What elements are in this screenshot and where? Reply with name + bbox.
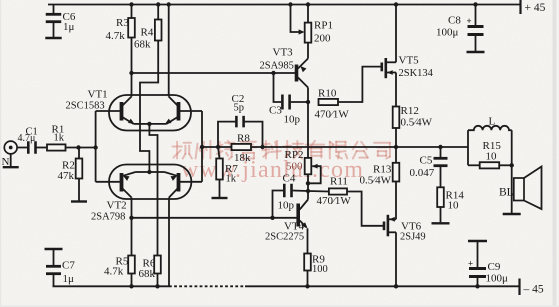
svg-text:10: 10 <box>486 151 498 163</box>
svg-text:100μ: 100μ <box>436 27 459 39</box>
capacitor C8 (polarized) <box>473 2 477 6</box>
wire (VT1 collector to VT3 base) <box>132 72 296 74</box>
wire (VT3 collector node) <box>307 88 309 103</box>
svg-text:R3: R3 <box>116 17 129 29</box>
svg-text:1k: 1k <box>54 133 65 144</box>
node (VT2 emitters junction) <box>147 170 151 174</box>
transistor VT3 (2SA985) <box>295 65 299 82</box>
resistor R2 <box>78 148 80 159</box>
resistor R14 <box>437 187 444 207</box>
node (VT3 collector / R10 / C3) <box>306 100 310 104</box>
svg-text:VT3: VT3 <box>273 47 294 59</box>
resistor R1 <box>47 144 66 150</box>
wire (C1 to R1) <box>36 147 47 149</box>
capacitor C9 (polarized) <box>468 240 487 242</box>
wire (to VT2 left base) <box>96 181 120 183</box>
svg-text:– 45: – 45 <box>523 284 544 296</box>
capacitor C4 <box>273 191 284 219</box>
svg-text:1k: 1k <box>226 174 237 185</box>
svg-text:RP1: RP1 <box>314 20 333 32</box>
svg-text:0.5⁄4W: 0.5⁄4W <box>360 175 392 187</box>
resistor R6 <box>154 256 161 274</box>
resistor R5 <box>131 198 133 256</box>
svg-text:C4: C4 <box>283 173 296 185</box>
svg-text:100: 100 <box>312 264 328 275</box>
ground stub at input <box>3 166 19 168</box>
op-amp VT2 outline (dual transistor 2SA798) <box>109 165 191 200</box>
svg-text:5p: 5p <box>234 103 245 114</box>
wire (input connector to ground stub) <box>10 154 12 167</box>
svg-text:10: 10 <box>448 200 460 212</box>
speaker BL <box>514 178 524 201</box>
svg-text:68k: 68k <box>134 39 151 51</box>
svg-text:4.7k: 4.7k <box>104 266 124 278</box>
resistor R7 <box>218 147 220 159</box>
transistor VT2 left half <box>120 173 124 192</box>
svg-text:0.047: 0.047 <box>410 167 435 179</box>
node (R3 bottom / VT1 left collector) <box>129 71 133 75</box>
svg-text:470⁄1W: 470⁄1W <box>317 195 352 207</box>
-45 terminal <box>518 279 520 296</box>
transistor VT1 left half <box>120 102 124 121</box>
capacitor C7 <box>45 248 63 250</box>
svg-text:4.7k: 4.7k <box>106 30 126 42</box>
svg-text:C9: C9 <box>488 261 501 273</box>
resistor R4 <box>156 2 160 6</box>
wire (VT6 to R13) <box>395 182 397 220</box>
svg-text:C8: C8 <box>448 15 461 27</box>
watermark company name (decorative) <box>173 141 390 160</box>
wire (VT1 right collector to +45 rail) <box>167 2 171 6</box>
svg-text:2SA985: 2SA985 <box>260 61 294 72</box>
transistor VT5 (2SK134 MOSFET) <box>380 63 383 72</box>
resistor R13 <box>393 163 400 182</box>
transistor VT2 right half <box>177 173 181 192</box>
potentiometer RP2 <box>305 158 312 174</box>
terminal stub below C8 <box>467 51 485 53</box>
svg-text:2SA798: 2SA798 <box>91 212 125 223</box>
svg-text:R4: R4 <box>141 27 154 39</box>
resistor R12 <box>393 107 400 129</box>
wire (VT5 source to R12) <box>395 73 397 107</box>
resistor R8 <box>232 144 252 150</box>
svg-text:R10: R10 <box>318 88 337 100</box>
wire (VT2 right base lead) <box>179 181 203 183</box>
resistor R15 <box>468 164 480 166</box>
node (VT1 emitters junction) <box>147 122 151 126</box>
+45 terminal <box>519 0 521 14</box>
svg-text:VT5: VT5 <box>399 55 420 67</box>
svg-text:470⁄1W: 470⁄1W <box>315 109 350 121</box>
node (R1/R2/base junction) <box>76 145 80 149</box>
wire (R8 to output line) <box>251 146 396 148</box>
wire (VT1/VT2 right bases vertical) <box>201 111 203 182</box>
svg-text:0.5⁄4W: 0.5⁄4W <box>401 117 433 129</box>
wire (RP2 bottom to R11 node) <box>307 183 309 191</box>
ground stub below R14 <box>432 222 450 224</box>
op-amp VT1 outline (dual transistor 2SC1583) <box>109 95 191 131</box>
wire (VT1 emitters tail to R6) <box>149 124 157 256</box>
-45V rail <box>53 285 170 287</box>
wire (feedback node to R8) <box>202 146 232 148</box>
wire (to speaker) <box>511 165 513 213</box>
svg-text:2SC2275: 2SC2275 <box>265 232 304 243</box>
svg-text:+ 45: + 45 <box>525 2 546 14</box>
+45V rail <box>48 4 521 6</box>
svg-text:+: + <box>468 259 473 269</box>
inductor L <box>467 130 469 165</box>
wire (dashed section of -45 rail) <box>169 285 245 287</box>
resistor R10 <box>319 99 339 105</box>
ground stub below R2 <box>71 200 87 202</box>
node (output junction) <box>394 145 398 149</box>
wire (-45 rail right section) <box>245 285 520 287</box>
resistor R3 <box>129 2 133 6</box>
transistor VT4 (2SC2275) <box>296 204 300 227</box>
wire (to VT1 left base) <box>96 110 120 112</box>
svg-text:R11: R11 <box>330 176 348 188</box>
wire (VT3 collector to RP2, crossing output line) <box>307 102 309 158</box>
wire (L/R15 right side) <box>511 130 513 165</box>
wire (input to C1) <box>17 147 28 149</box>
svg-text:BL: BL <box>499 187 514 199</box>
svg-text:C7: C7 <box>62 260 75 272</box>
svg-text:C3: C3 <box>269 105 282 117</box>
wire (VT5 drain to +45 rail) <box>394 2 398 6</box>
ground stub below R7 <box>212 197 228 199</box>
wire (R1 to node) <box>66 147 96 149</box>
svg-text:C5: C5 <box>420 155 433 167</box>
svg-text:10p: 10p <box>284 114 301 126</box>
capacitor C6 <box>53 5 55 15</box>
svg-text:1μ: 1μ <box>63 21 75 33</box>
ground stub below speaker <box>503 213 521 215</box>
svg-text:2SJ49: 2SJ49 <box>400 232 426 243</box>
wire (output line to L/R15 block) <box>396 146 468 148</box>
wire (VT4 emitter to R9) <box>307 228 309 253</box>
svg-text:200: 200 <box>314 33 331 45</box>
svg-text:VT1: VT1 <box>88 89 108 101</box>
terminal stub below C6 <box>45 37 61 39</box>
transistor VT1 right half <box>177 102 181 121</box>
svg-text:10p: 10p <box>278 200 295 212</box>
resistor R11 <box>308 190 329 193</box>
svg-text:L: L <box>489 116 496 128</box>
node (feedback tap) <box>200 145 204 149</box>
capacitor C5 <box>438 145 442 149</box>
capacitor C1 <box>27 141 30 154</box>
svg-text:100μ: 100μ <box>486 273 509 285</box>
resistor R9 <box>304 254 311 271</box>
wire (VT2 left collector to VT4 base) <box>132 217 297 219</box>
svg-text:4.7μ: 4.7μ <box>18 133 36 144</box>
node (RP2/C4/R11/VT4 collector) <box>306 189 310 193</box>
potentiometer RP1 <box>306 2 310 6</box>
svg-text:VT2: VT2 <box>107 200 127 212</box>
capacitor C3 <box>274 73 282 102</box>
wire (VT6 drain to -45 rail) <box>395 232 397 286</box>
wire (R10 to VT5 gate) <box>338 67 381 102</box>
wire (R4 down to VT2 emitters) <box>140 41 158 173</box>
svg-text:2SK134: 2SK134 <box>399 68 434 79</box>
svg-text:1μ: 1μ <box>63 273 75 285</box>
wire (R2 to ground stub) <box>78 179 80 201</box>
input connector N <box>4 141 17 154</box>
svg-text:500: 500 <box>286 161 303 173</box>
svg-text:R8: R8 <box>237 133 250 145</box>
wire (R11 to VT6 gate) <box>347 192 383 226</box>
wire (VT2 right collector to -45 rail) <box>168 198 170 287</box>
wire (node to VT4 collector) <box>307 191 309 200</box>
wire (input node to VT1/VT2 bases) <box>93 145 97 149</box>
svg-text:R12: R12 <box>401 105 419 117</box>
transistor VT6 (2SJ49 MOSFET) <box>383 222 386 231</box>
svg-text:68k: 68k <box>139 268 156 280</box>
svg-text:2SC1583: 2SC1583 <box>66 101 105 112</box>
capacitor C2 <box>218 122 235 147</box>
svg-text:RP2: RP2 <box>285 149 304 161</box>
svg-text:+: + <box>467 16 472 26</box>
wire (VT3 emitter to RP1) <box>307 43 309 59</box>
node (R7/C2/R8 junction) <box>216 145 220 149</box>
wire (VT1 right base lead) <box>179 110 203 112</box>
svg-text:47k: 47k <box>58 170 75 182</box>
